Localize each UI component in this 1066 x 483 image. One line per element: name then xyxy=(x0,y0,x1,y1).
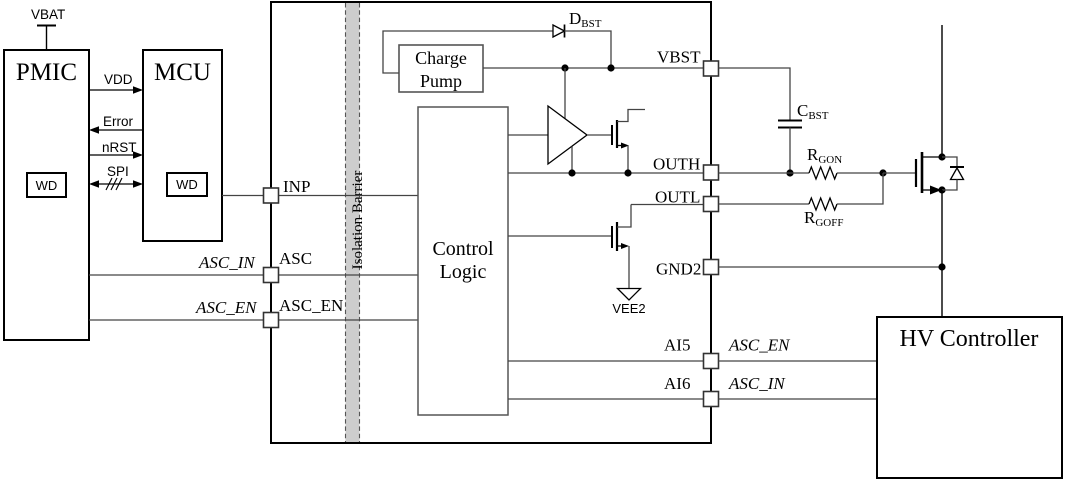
svg-text:ASC_IN: ASC_IN xyxy=(728,374,786,393)
node junction dot xyxy=(879,169,886,176)
svg-text:nRST: nRST xyxy=(102,140,137,155)
high-side NMOS xyxy=(612,110,645,174)
svg-text:ASC: ASC xyxy=(279,249,312,268)
resistor RGOFF xyxy=(804,198,843,229)
pin VBST xyxy=(657,48,719,77)
pin ASC_EN xyxy=(264,296,344,328)
wire OUTL to RGOFF xyxy=(719,203,810,205)
wire CBST to OUTH node xyxy=(789,128,791,174)
buffer amplifier xyxy=(548,106,587,164)
pin OUTH xyxy=(653,155,719,181)
wire SPI bidirectional with bus slashes xyxy=(89,164,143,190)
svg-text:WD: WD xyxy=(176,177,198,192)
low-side NMOS xyxy=(612,205,631,289)
pin OUTL xyxy=(655,188,719,212)
svg-text:RGON: RGON xyxy=(807,145,842,166)
svg-text:GND2: GND2 xyxy=(656,260,701,279)
svg-text:Charge: Charge xyxy=(415,48,467,68)
node junction dot source xyxy=(938,186,945,193)
svg-text:Logic: Logic xyxy=(440,261,487,283)
wire control logic to low-side gate xyxy=(508,235,612,237)
capacitor CBST xyxy=(778,101,829,128)
wire gate node to power MOSFET xyxy=(883,172,916,174)
pin GND2 xyxy=(656,260,719,279)
wire buffer to high-side gate xyxy=(587,134,612,136)
wire ASC_EN from PMIC xyxy=(89,298,264,320)
watchdog WD (PMIC) xyxy=(27,173,66,197)
svg-text:HV Controller: HV Controller xyxy=(900,326,1039,352)
svg-text:INP: INP xyxy=(283,177,310,196)
wire buffer supply xyxy=(564,68,566,119)
node junction dot xyxy=(561,64,568,71)
PMIC block xyxy=(4,50,89,340)
pin AI5 xyxy=(664,336,719,369)
wire ASC_IN from PMIC xyxy=(89,253,264,275)
wire OUTL to low-side drain xyxy=(631,204,704,206)
charge pump block xyxy=(399,45,483,92)
wire nRST PMIC to MCU xyxy=(89,140,143,159)
wire control logic to buffer xyxy=(508,134,548,136)
wire OUTH to RGON xyxy=(719,172,810,174)
svg-text:ASC_IN: ASC_IN xyxy=(198,253,256,272)
diode DBST xyxy=(553,9,602,38)
wire charge pump loop to DBST xyxy=(383,31,553,73)
wire RGON to gate node xyxy=(837,172,883,174)
svg-text:WD: WD xyxy=(36,178,58,193)
VEE2 ground symbol xyxy=(612,289,645,317)
svg-text:SPI: SPI xyxy=(107,164,129,179)
wire ASC to control logic xyxy=(279,274,419,276)
node junction dot xyxy=(624,169,631,176)
resistor RGON xyxy=(807,145,842,179)
svg-text:ASC_EN: ASC_EN xyxy=(195,298,258,317)
wire charge pump output to VBST pin xyxy=(483,67,704,69)
node junction dot drain xyxy=(938,153,945,160)
svg-text:Isolation Barrier: Isolation Barrier xyxy=(350,171,366,270)
pin INP xyxy=(264,177,311,203)
power MOSFET Q1 xyxy=(916,152,942,195)
wire control logic to AI5 pin xyxy=(508,360,704,362)
wire drain rail up xyxy=(941,25,943,157)
wire ASC_EN to control logic xyxy=(279,319,419,321)
pin AI6 xyxy=(664,374,719,407)
node junction dot xyxy=(786,169,793,176)
MCU block xyxy=(143,50,222,241)
wire control logic to AI6 pin xyxy=(508,398,704,400)
wire GND2 to source rail xyxy=(719,266,943,268)
watchdog WD (MCU) xyxy=(167,173,207,196)
wire Error MCU to PMIC xyxy=(89,114,143,134)
VBAT supply xyxy=(31,7,65,50)
wire DBST to VBST rail xyxy=(565,31,612,68)
svg-text:CBST: CBST xyxy=(797,101,829,122)
node junction dot xyxy=(938,263,945,270)
body diode xyxy=(942,157,964,190)
svg-text:OUTL: OUTL xyxy=(655,188,700,207)
svg-text:VBAT: VBAT xyxy=(31,7,65,22)
wire VBST to CBST xyxy=(719,68,791,121)
wire OUTH rail xyxy=(508,172,704,174)
wire VDD PMIC to MCU xyxy=(89,72,143,94)
pin ASC xyxy=(264,249,313,283)
wire INP to control logic xyxy=(279,195,419,197)
svg-text:AI6: AI6 xyxy=(664,374,690,393)
svg-text:Control: Control xyxy=(432,238,494,260)
wire AI5 to HV controller xyxy=(719,360,878,362)
svg-text:MCU: MCU xyxy=(154,59,211,86)
svg-text:OUTH: OUTH xyxy=(653,155,700,174)
isolation barrier xyxy=(346,3,367,442)
HV Controller block xyxy=(877,317,1062,478)
wire buffer return to OUTH xyxy=(571,147,573,174)
wire MCU to INP pin xyxy=(222,195,264,197)
node junction dot xyxy=(607,64,614,71)
wire RGOFF up to gate node xyxy=(837,173,883,204)
svg-text:ASC_EN: ASC_EN xyxy=(279,296,343,315)
svg-text:ASC_EN: ASC_EN xyxy=(728,336,791,355)
svg-text:PMIC: PMIC xyxy=(16,59,77,86)
svg-text:VDD: VDD xyxy=(104,72,133,87)
svg-text:VEE2: VEE2 xyxy=(612,301,645,316)
node junction dot xyxy=(568,169,575,176)
gate driver IC outline xyxy=(271,2,711,443)
svg-text:VBST: VBST xyxy=(657,48,701,67)
svg-text:Pump: Pump xyxy=(420,71,462,91)
svg-text:AI5: AI5 xyxy=(664,336,690,355)
control logic block xyxy=(418,107,508,415)
svg-text:RGOFF: RGOFF xyxy=(804,208,843,229)
wire AI6 to HV controller xyxy=(719,398,878,400)
wire source rail down to HV controller xyxy=(941,190,943,317)
svg-text:Error: Error xyxy=(103,114,134,129)
